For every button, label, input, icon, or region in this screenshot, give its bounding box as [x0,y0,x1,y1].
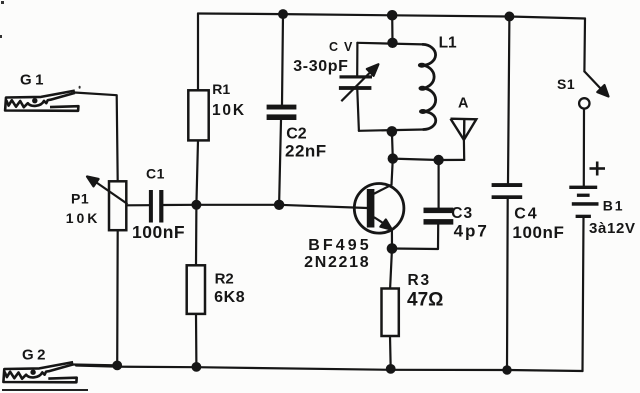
svg-text:2N2218: 2N2218 [304,254,370,271]
svg-text:47Ω: 47Ω [407,290,443,311]
svg-text:3à12V: 3à12V [589,220,636,237]
svg-text:P1: P1 [71,191,89,207]
svg-text:A: A [458,96,469,112]
svg-text:G2: G2 [22,347,49,364]
svg-text:6K8: 6K8 [214,289,245,306]
svg-text:3-30pF: 3-30pF [293,58,348,75]
svg-text:L1: L1 [439,34,457,51]
svg-text:B1: B1 [603,198,625,214]
svg-text:100nF: 100nF [132,222,185,242]
svg-text:C1: C1 [146,166,165,182]
svg-text:G1: G1 [20,71,47,88]
svg-text:BF495: BF495 [308,237,372,254]
svg-text:C4: C4 [514,206,538,223]
svg-text:C3: C3 [451,205,473,222]
svg-text:R1: R1 [212,81,230,97]
svg-text:10K: 10K [66,210,101,226]
svg-text:22nF: 22nF [285,141,327,160]
svg-text:R3: R3 [408,272,431,289]
svg-text:4p7: 4p7 [454,222,489,241]
svg-text:CV: CV [329,40,358,54]
svg-text:C2: C2 [286,125,307,142]
svg-text:S1: S1 [557,76,575,92]
svg-text:10K: 10K [212,102,246,119]
svg-text:100nF: 100nF [512,223,564,242]
svg-text:R2: R2 [215,271,234,288]
